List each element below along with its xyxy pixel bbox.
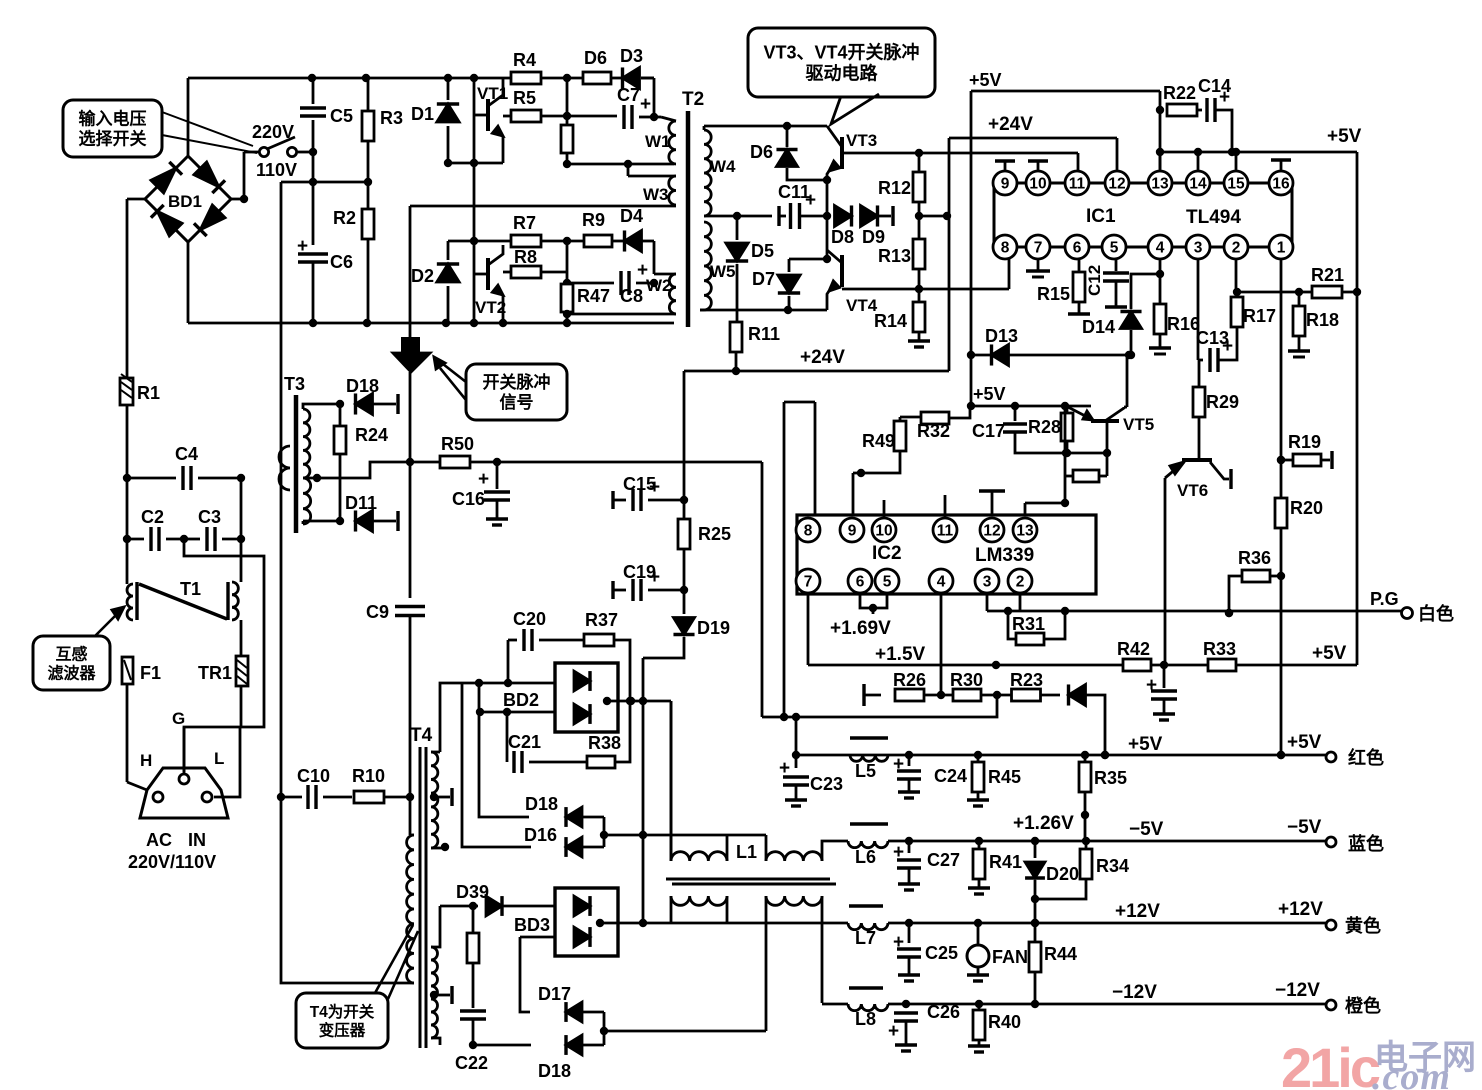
- resistor R49: [853, 417, 906, 477]
- pin12 bar: [979, 491, 1005, 515]
- wire +5V top feed: [971, 91, 1160, 404]
- wire +5V rail y152: [1160, 148, 1361, 665]
- svg-text:L5: L5: [855, 761, 876, 781]
- svg-text:R8: R8: [514, 247, 537, 267]
- wire BD2 output: [603, 697, 671, 861]
- wire VT4 base row: [842, 258, 1009, 293]
- svg-text:D5: D5: [751, 241, 774, 261]
- svg-text:C11: C11: [778, 182, 810, 202]
- svg-text:R38: R38: [588, 733, 621, 753]
- pin11 stub: [944, 495, 947, 519]
- resistor R5: [503, 88, 571, 122]
- wire T1 right to TR1: [240, 620, 243, 656]
- wire D17 D18 node: [600, 1012, 766, 1045]
- capacitor C13: [1196, 328, 1237, 372]
- svg-text:D3: D3: [620, 46, 643, 66]
- wire pin4 down: [937, 594, 945, 699]
- diode D8: [831, 205, 854, 247]
- svg-text:IC1: IC1: [1086, 206, 1116, 227]
- callout T4 switching transformer: [296, 925, 418, 1048]
- transformer T1: [127, 579, 238, 620]
- pin2 wire down: [1235, 258, 1238, 292]
- wire BD2 top input: [462, 679, 555, 687]
- label IC1: [1086, 206, 1116, 227]
- wire x1160 down to pin13: [1156, 91, 1164, 183]
- svg-text:D18: D18: [346, 376, 379, 396]
- wire -12V rail: [822, 1000, 1326, 1008]
- svg-text:D11: D11: [345, 493, 377, 513]
- svg-text:+: +: [893, 842, 904, 863]
- capacitor C25: [893, 923, 958, 981]
- svg-text:6: 6: [856, 574, 865, 591]
- svg-text:12: 12: [1108, 176, 1125, 193]
- winding W5: [700, 222, 736, 310]
- svg-text:D8: D8: [831, 227, 854, 247]
- terminal P.G: [1370, 589, 1413, 619]
- inductor L1 bottom-right: [766, 896, 822, 1003]
- wire +1.5V line: [808, 661, 1357, 669]
- transistor VT6: [1165, 460, 1231, 500]
- svg-text:FAN: FAN: [992, 947, 1028, 967]
- terminal +5V: [1326, 747, 1384, 768]
- svg-text:R5: R5: [513, 88, 536, 108]
- transformer core T3: [284, 374, 305, 533]
- pin1 wire down: [1277, 258, 1285, 464]
- resistor R44: [1029, 899, 1077, 1008]
- svg-text:−12V: −12V: [1112, 982, 1157, 1003]
- label +12V mid: [1115, 901, 1160, 922]
- terminal -5V: [1326, 833, 1384, 854]
- label +5V topmost: [969, 70, 1002, 90]
- capacitor C23: [779, 751, 843, 806]
- wire W5 bottom line: [700, 306, 827, 314]
- label TL494: [1186, 207, 1241, 228]
- svg-text:+1.69V: +1.69V: [830, 618, 891, 639]
- label T4: [410, 725, 433, 746]
- svg-text:7: 7: [1034, 240, 1043, 257]
- fuse F1: [122, 657, 161, 684]
- switching pulse arrow: [393, 206, 430, 372]
- svg-text:3: 3: [983, 574, 992, 591]
- svg-text:15: 15: [1227, 176, 1245, 193]
- resistor R4: [511, 50, 541, 84]
- diode D14: [1082, 274, 1160, 359]
- svg-text:R19: R19: [1288, 432, 1321, 452]
- svg-text:R12: R12: [878, 178, 911, 198]
- wire -5V rail: [888, 837, 1326, 845]
- svg-text:R31: R31: [1012, 614, 1045, 634]
- label white: [1418, 603, 1454, 624]
- svg-text:+24V: +24V: [800, 347, 845, 368]
- svg-text:VT3: VT3: [846, 131, 877, 150]
- svg-text:5: 5: [883, 574, 892, 591]
- capacitor C14: [1198, 76, 1236, 156]
- svg-text:互感: 互感: [55, 644, 87, 663]
- capacitor C8: [563, 260, 658, 306]
- svg-text:R29: R29: [1206, 392, 1239, 412]
- svg-text:F1: F1: [140, 663, 161, 683]
- svg-text:D18: D18: [538, 1061, 571, 1081]
- wire line under switch: [281, 178, 372, 186]
- wire R1 to F1: [126, 405, 129, 584]
- resistor R16: [1149, 274, 1200, 354]
- svg-text:−5V: −5V: [1129, 819, 1164, 840]
- svg-text:R2: R2: [333, 208, 356, 228]
- svg-text:R18: R18: [1306, 310, 1339, 330]
- resistor R26: [893, 670, 926, 701]
- svg-text:C17: C17: [972, 421, 1005, 441]
- label +1.26V: [1013, 813, 1074, 834]
- bridge BD2: [503, 663, 618, 732]
- label +5V mid: [973, 384, 1006, 404]
- label +12V right: [1278, 899, 1323, 920]
- svg-text:开关脉冲: 开关脉冲: [483, 372, 551, 392]
- wire R23 node down: [762, 695, 997, 755]
- wire pin1 net down to PG: [1277, 576, 1285, 759]
- svg-text:7: 7: [804, 574, 813, 591]
- resistor R47: [561, 284, 610, 323]
- wire W4 top line: [704, 122, 827, 130]
- svg-text:R28: R28: [1028, 417, 1061, 437]
- inductor L1 top-left: [671, 701, 727, 861]
- svg-text:R50: R50: [441, 434, 474, 454]
- svg-text:10: 10: [1029, 176, 1046, 193]
- wire pin7 down: [807, 594, 810, 665]
- wire 110V node down: [309, 152, 317, 245]
- transistor VT1: [474, 78, 508, 163]
- tap T4 sec top: [430, 788, 452, 806]
- svg-text:D1: D1: [411, 104, 434, 124]
- capacitor C11: [778, 182, 827, 229]
- svg-text:W5: W5: [710, 262, 736, 281]
- svg-text:L8: L8: [855, 1009, 876, 1029]
- svg-text:C22: C22: [455, 1053, 488, 1073]
- diode D9: [861, 205, 894, 247]
- resistor R41: [968, 841, 1022, 894]
- svg-text:R25: R25: [698, 524, 731, 544]
- pin10 NC bar: [1028, 161, 1048, 172]
- svg-text:6: 6: [1073, 240, 1082, 257]
- winding T4 sec bottom: [431, 906, 440, 1045]
- resistor R23: [1010, 670, 1060, 701]
- svg-text:2: 2: [1232, 240, 1241, 257]
- svg-text:VT1: VT1: [477, 84, 508, 103]
- svg-text:T4: T4: [410, 725, 433, 746]
- label L1: [736, 842, 757, 862]
- capacitor C3: [180, 507, 245, 551]
- transformer core T4: [420, 747, 426, 1048]
- svg-text:C19: C19: [623, 562, 656, 582]
- svg-text:R13: R13: [878, 246, 911, 266]
- pin13 stub: [1024, 503, 1027, 515]
- svg-text:D16: D16: [524, 825, 557, 845]
- resistor R1: [120, 374, 160, 405]
- svg-text:LM339: LM339: [975, 545, 1034, 566]
- wire left vertical from BD1 to top rail: [187, 78, 190, 156]
- svg-text:D6: D6: [584, 48, 607, 68]
- diode D5: [726, 216, 774, 310]
- wire BD2 bottom input: [476, 708, 555, 716]
- transformer core T2: [682, 89, 704, 327]
- svg-text:T2: T2: [682, 89, 704, 110]
- svg-text:+1.26V: +1.26V: [1013, 813, 1074, 834]
- capacitor C17: [972, 406, 1065, 453]
- svg-text:D9: D9: [862, 227, 885, 247]
- resistor R25: [678, 500, 731, 594]
- diode D6b: [750, 126, 831, 184]
- diode D18a: [346, 376, 398, 415]
- wire VT1 emitter row: [444, 159, 503, 167]
- resistor R32: [900, 406, 970, 441]
- svg-text:R32: R32: [917, 421, 950, 441]
- wire x643 down: [639, 658, 647, 927]
- resistor R12: [878, 153, 925, 202]
- svg-text:C24: C24: [934, 766, 967, 786]
- wire bottom rail: [188, 242, 674, 327]
- wire TR1 to plug L: [214, 686, 241, 797]
- svg-text:3: 3: [1194, 240, 1203, 257]
- svg-text:C4: C4: [175, 444, 198, 464]
- svg-text:P.G: P.G: [1370, 589, 1399, 609]
- wire T1 right to C3/C4: [240, 478, 243, 582]
- svg-text:10: 10: [875, 523, 892, 540]
- pin16 NC bar: [1271, 160, 1291, 172]
- diode D18c: [473, 1035, 604, 1081]
- wire pin9 feed: [852, 473, 855, 519]
- svg-text:D19: D19: [697, 618, 730, 638]
- terminal +12V: [1326, 915, 1381, 936]
- svg-text:D4: D4: [620, 206, 643, 226]
- svg-text:W4: W4: [710, 157, 736, 176]
- svg-text:输入电压: 输入电压: [79, 109, 147, 129]
- wire BD1 left output: [127, 199, 145, 378]
- svg-text:C6: C6: [330, 252, 353, 272]
- resistor R38: [587, 697, 634, 768]
- wire PG line: [987, 609, 1402, 617]
- svg-text:220V: 220V: [252, 122, 294, 142]
- inductor L1 core: [666, 879, 836, 884]
- pin15 wire to +5V: [1235, 152, 1238, 172]
- wire +5V rail out: [796, 751, 1326, 759]
- svg-text:+5V: +5V: [1327, 126, 1362, 147]
- svg-text:C27: C27: [927, 850, 960, 870]
- switch 220V/110V select: [244, 137, 317, 157]
- terminal -12V: [1326, 995, 1381, 1016]
- label +24V top: [988, 114, 1033, 135]
- wire x474 vertical: [473, 78, 476, 323]
- svg-text:C7: C7: [617, 85, 640, 105]
- resistor R-unlabeled VT5: [1065, 470, 1107, 482]
- resistor R2: [333, 182, 374, 323]
- svg-text:D18: D18: [525, 794, 558, 814]
- capacitor C5: [300, 78, 353, 152]
- svg-text:C16: C16: [452, 489, 485, 509]
- wire x1065 vertical: [1025, 406, 1070, 507]
- svg-text:C26: C26: [927, 1002, 960, 1022]
- wire T3 top to D18 node: [303, 400, 344, 409]
- svg-text:红色: 红色: [1348, 747, 1384, 768]
- svg-text:BD3: BD3: [514, 915, 550, 935]
- svg-text:C20: C20: [513, 609, 546, 629]
- capacitor C27: [893, 841, 960, 890]
- wire W1 bottom row: [567, 160, 674, 168]
- svg-text:信号: 信号: [500, 392, 534, 412]
- resistor R7: [511, 213, 571, 247]
- inductor L8: [848, 988, 888, 1029]
- svg-text:L7: L7: [855, 928, 876, 948]
- svg-text:1: 1: [1277, 240, 1286, 257]
- resistor R31: [1004, 607, 1069, 645]
- wire T3 tap: [303, 462, 440, 482]
- label +5V near R33: [1312, 643, 1347, 664]
- svg-text:R33: R33: [1203, 639, 1236, 659]
- svg-text:H: H: [140, 751, 152, 770]
- wire VT5 base node: [1065, 453, 1107, 476]
- svg-text:变压器: 变压器: [319, 1020, 366, 1039]
- svg-text:110V: 110V: [256, 160, 297, 180]
- diode D19: [643, 590, 730, 658]
- svg-text:R24: R24: [355, 425, 388, 445]
- svg-text:蓝色: 蓝色: [1348, 833, 1384, 854]
- diode D-R23: [1069, 684, 1110, 759]
- watermark dianziwang: [1374, 1039, 1476, 1077]
- svg-text:W1: W1: [645, 132, 671, 151]
- label H: [140, 751, 152, 770]
- svg-text:14: 14: [1189, 176, 1207, 193]
- svg-text:+: +: [640, 94, 651, 115]
- label +1.69V: [830, 618, 891, 639]
- svg-text:驱动电路: 驱动电路: [806, 62, 879, 83]
- callout input voltage select switch: [63, 100, 257, 157]
- label -12V right: [1275, 980, 1320, 1001]
- wire x567 mid: [566, 241, 569, 283]
- wire pin8 feed: [814, 402, 817, 519]
- resistor R37: [584, 610, 630, 701]
- svg-text:D6: D6: [750, 142, 773, 162]
- pin9 NC bar: [995, 161, 1015, 172]
- svg-text:R20: R20: [1290, 498, 1323, 518]
- label -5V mid: [1129, 819, 1164, 840]
- label +5V right top: [1327, 126, 1362, 147]
- svg-text:R47: R47: [577, 286, 610, 306]
- capacitor C20: [508, 609, 584, 651]
- svg-text:C2: C2: [141, 507, 164, 527]
- svg-text:+1.5V: +1.5V: [875, 644, 926, 665]
- inductor L7: [848, 906, 888, 948]
- wire W4W5 tap: [704, 212, 772, 220]
- resistor R42: [1117, 639, 1151, 671]
- resistor R40: [968, 1004, 1021, 1052]
- wire long vertical x=281: [280, 182, 283, 797]
- svg-text:C23: C23: [810, 774, 843, 794]
- wire VT3 base to R12: [842, 149, 1078, 157]
- capacitor C16: [452, 462, 510, 525]
- svg-text:W2: W2: [646, 276, 672, 295]
- label +5V out right: [1287, 732, 1322, 753]
- svg-text:+: +: [297, 236, 308, 257]
- svg-text:+5V: +5V: [1312, 643, 1347, 664]
- svg-text:D14: D14: [1082, 317, 1115, 337]
- resistor R50: [440, 434, 762, 468]
- resistor R9: [567, 210, 624, 247]
- svg-text:IN: IN: [188, 830, 206, 850]
- wire D13 line: [967, 351, 1131, 359]
- winding T4 sec top: [431, 752, 449, 851]
- IC U2 LM339 (IC2): [796, 515, 1096, 594]
- svg-text:+: +: [888, 1021, 899, 1042]
- svg-text:VT2: VT2: [475, 298, 506, 317]
- label -12V mid: [1112, 982, 1157, 1003]
- diode D20: [1025, 841, 1079, 903]
- wire +5V rail y406: [967, 402, 1091, 410]
- fan FAN: [967, 923, 1028, 981]
- capacitor C24: [893, 754, 967, 798]
- svg-text:白色: 白色: [1418, 603, 1454, 624]
- svg-text:D13: D13: [985, 326, 1018, 346]
- pin3 wire down: [1197, 258, 1200, 360]
- IC U1 TL494 (IC1): [993, 171, 1293, 259]
- svg-text:橙色: 橙色: [1345, 995, 1381, 1016]
- svg-text:13: 13: [1151, 176, 1169, 193]
- diode D4: [620, 206, 654, 252]
- svg-text:C13: C13: [1196, 328, 1229, 348]
- wire arrow down to C9: [406, 372, 414, 598]
- svg-text:R10: R10: [352, 766, 385, 786]
- svg-text:C21: C21: [508, 732, 541, 752]
- transistor VT3: [827, 126, 877, 180]
- svg-text:R22: R22: [1163, 83, 1196, 103]
- diode D7: [752, 259, 827, 310]
- winding W1: [645, 117, 676, 164]
- svg-text:D20: D20: [1046, 864, 1079, 884]
- svg-text:+: +: [893, 754, 904, 775]
- resistor R45: [967, 755, 1021, 806]
- tap T4 sec bottom: [430, 986, 452, 1004]
- svg-text:+5V: +5V: [969, 70, 1002, 90]
- svg-text:4: 4: [937, 574, 946, 591]
- svg-text:C15: C15: [623, 474, 656, 494]
- svg-text:C12: C12: [1085, 265, 1104, 296]
- svg-text:D39: D39: [456, 882, 489, 902]
- capacitor C26: [888, 1002, 960, 1051]
- wire R50 to IC2 area: [762, 402, 815, 717]
- resistor R34: [1035, 841, 1129, 899]
- svg-text:R40: R40: [988, 1012, 1021, 1032]
- terminal R26 bar: [864, 684, 881, 706]
- inductor L6: [848, 824, 888, 867]
- resistor R17: [1231, 288, 1276, 343]
- svg-text:L1: L1: [736, 842, 757, 862]
- svg-text:9: 9: [1001, 176, 1010, 193]
- svg-text:+12V: +12V: [1278, 899, 1323, 920]
- svg-text:12: 12: [983, 523, 1000, 540]
- svg-text:+: +: [478, 469, 489, 490]
- svg-text:C9: C9: [366, 602, 389, 622]
- wire pin3 stub: [986, 594, 989, 611]
- capacitor C21: [507, 712, 588, 773]
- svg-text:R44: R44: [1044, 944, 1077, 964]
- winding W3: [410, 164, 676, 206]
- diode D17: [538, 984, 604, 1022]
- svg-text:11: 11: [937, 523, 954, 540]
- capacitor C2: [123, 507, 184, 551]
- wire +1.69V bracket: [860, 594, 887, 614]
- label 220V: [252, 122, 294, 142]
- label +5V out mid: [1128, 734, 1163, 755]
- svg-text:L6: L6: [855, 847, 876, 867]
- watermark com: [1372, 1056, 1451, 1090]
- inductor L1 bottom-left: [671, 896, 727, 923]
